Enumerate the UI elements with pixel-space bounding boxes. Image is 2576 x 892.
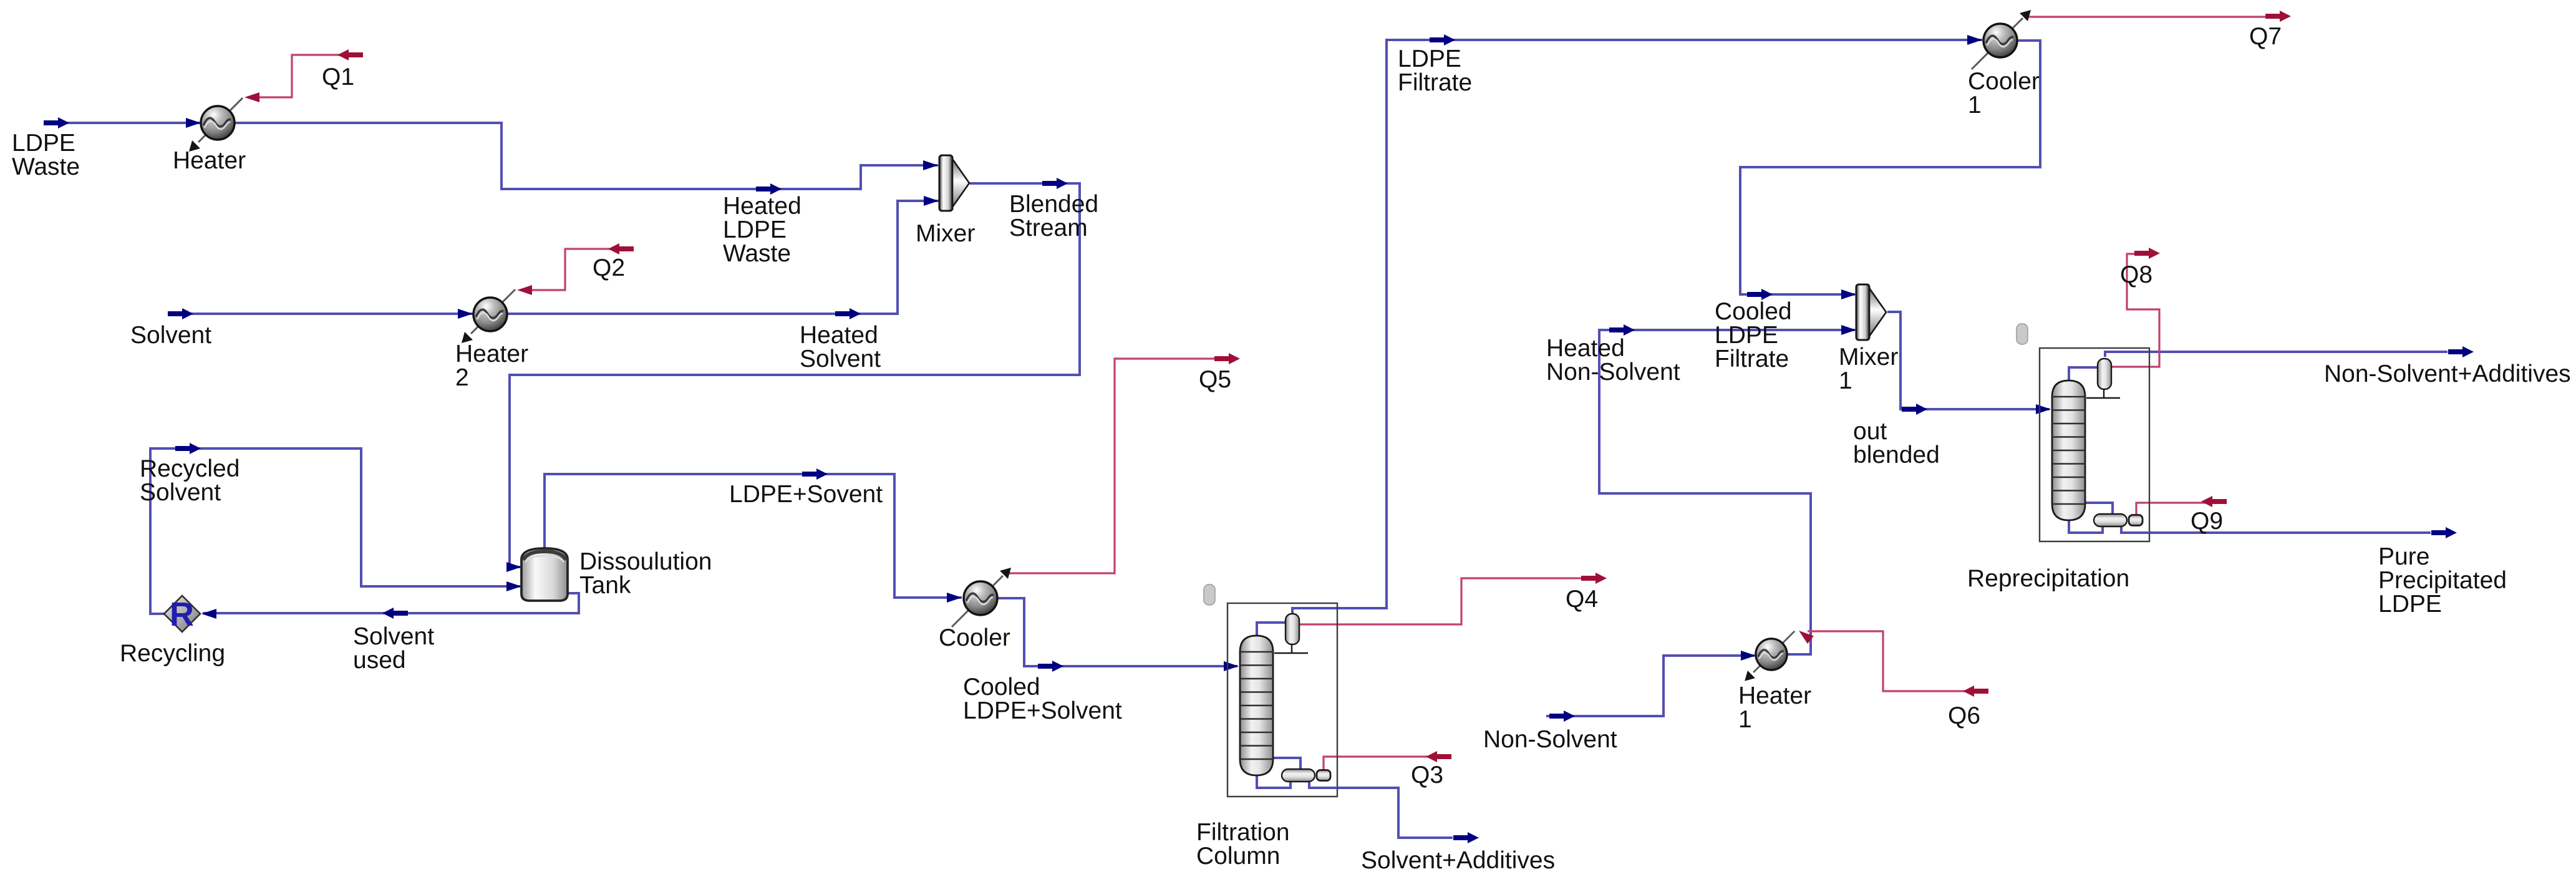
svg-text:Q2: Q2: [593, 255, 625, 281]
svg-text:Heater: Heater: [1738, 682, 1811, 709]
svg-text:Heated: Heated: [800, 322, 878, 349]
svg-text:Q4: Q4: [1566, 586, 1598, 613]
svg-text:Non-Solvent: Non-Solvent: [1546, 359, 1680, 385]
svg-text:Non-Solvent+Additives: Non-Solvent+Additives: [2324, 361, 2571, 387]
svg-text:Solvent: Solvent: [800, 346, 881, 372]
svg-text:Q8: Q8: [2120, 261, 2152, 288]
svg-text:Cooled: Cooled: [1715, 298, 1792, 325]
svg-text:Filtration: Filtration: [1196, 819, 1290, 846]
svg-text:Waste: Waste: [723, 240, 791, 267]
svg-text:Heater: Heater: [173, 147, 246, 174]
svg-text:LDPE: LDPE: [1715, 322, 1778, 349]
svg-text:2: 2: [455, 364, 469, 391]
svg-text:Q9: Q9: [2191, 508, 2223, 535]
svg-text:Cooler: Cooler: [1968, 68, 2040, 95]
svg-text:Mixer: Mixer: [916, 220, 975, 247]
svg-text:Waste: Waste: [12, 153, 80, 180]
svg-text:Q6: Q6: [1948, 702, 1980, 729]
svg-text:Filtrate: Filtrate: [1715, 346, 1789, 372]
svg-text:Column: Column: [1196, 843, 1280, 870]
svg-text:LDPE+Sovent: LDPE+Sovent: [729, 481, 883, 508]
svg-text:Blended: Blended: [1009, 191, 1098, 218]
svg-text:Cooler: Cooler: [939, 624, 1010, 651]
svg-text:Heated: Heated: [1546, 335, 1625, 362]
svg-text:1: 1: [1968, 92, 1982, 119]
svg-text:Q7: Q7: [2249, 23, 2282, 50]
svg-text:LDPE: LDPE: [2378, 591, 2442, 618]
svg-text:Stream: Stream: [1009, 215, 1088, 241]
svg-text:Mixer: Mixer: [1839, 344, 1898, 371]
svg-text:Q3: Q3: [1411, 762, 1443, 788]
svg-text:Q5: Q5: [1199, 366, 1231, 393]
svg-text:LDPE+Solvent: LDPE+Solvent: [963, 697, 1122, 724]
svg-text:Recycled: Recycled: [140, 455, 240, 482]
svg-text:Precipitated: Precipitated: [2378, 567, 2507, 594]
svg-text:LDPE: LDPE: [12, 130, 75, 157]
svg-text:Solvent+Additives: Solvent+Additives: [1361, 847, 1555, 874]
svg-text:Filtrate: Filtrate: [1398, 69, 1472, 96]
svg-text:Q1: Q1: [322, 64, 354, 90]
svg-text:Recycling: Recycling: [120, 640, 225, 667]
svg-text:Solvent: Solvent: [130, 322, 211, 349]
svg-text:Tank: Tank: [579, 572, 631, 599]
svg-text:LDPE: LDPE: [723, 216, 787, 243]
svg-text:R: R: [170, 596, 194, 633]
svg-text:Non-Solvent: Non-Solvent: [1483, 726, 1617, 753]
svg-text:Pure: Pure: [2378, 543, 2429, 570]
svg-text:blended: blended: [1853, 442, 1940, 468]
svg-text:Solvent: Solvent: [353, 623, 434, 650]
svg-text:Dissoulution: Dissoulution: [579, 548, 712, 575]
svg-text:used: used: [353, 647, 406, 674]
svg-text:Cooled: Cooled: [963, 674, 1040, 701]
svg-text:Solvent: Solvent: [140, 479, 221, 506]
svg-text:LDPE: LDPE: [1398, 46, 1461, 72]
svg-text:Reprecipitation: Reprecipitation: [1967, 565, 2129, 592]
svg-text:Heated: Heated: [723, 193, 801, 220]
svg-text:1: 1: [1738, 706, 1752, 733]
svg-text:out: out: [1853, 418, 1887, 445]
svg-text:1: 1: [1839, 367, 1852, 394]
svg-text:Heater: Heater: [455, 341, 528, 367]
